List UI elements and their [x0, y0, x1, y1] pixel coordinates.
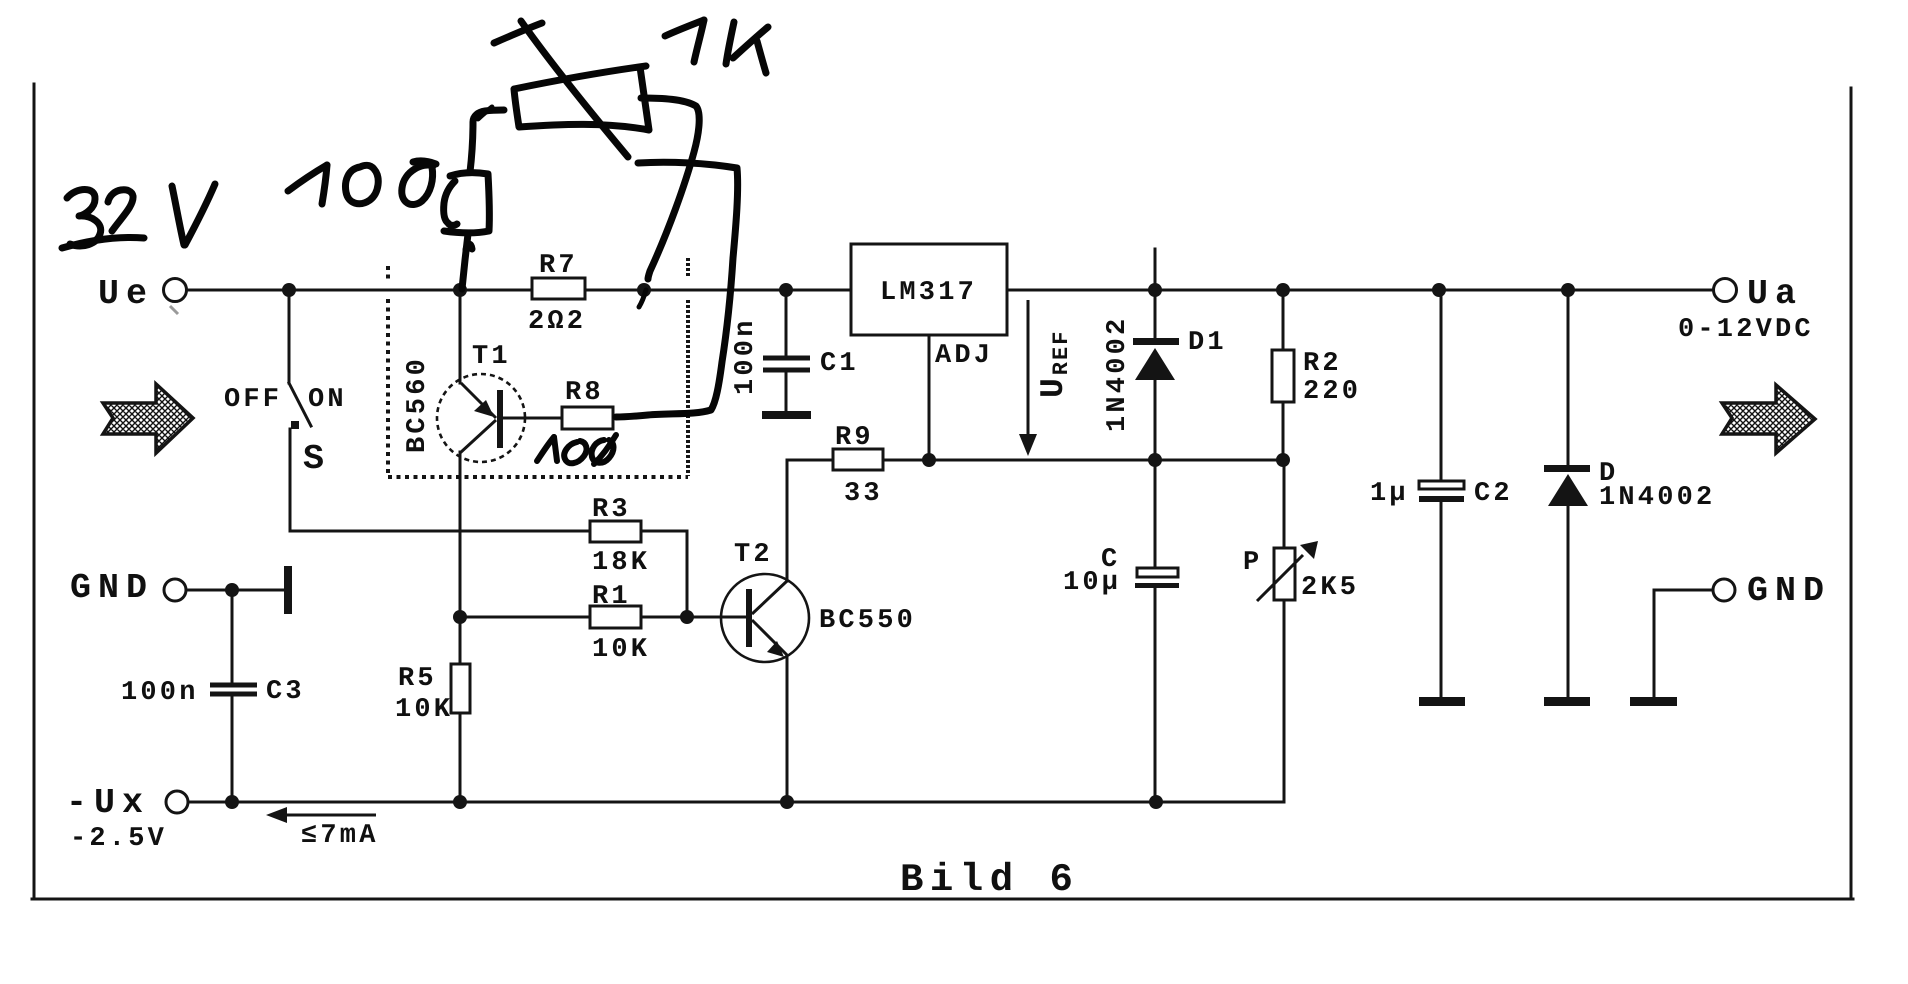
wire C1 branch top — [785, 290, 788, 356]
wire C 10u to bottom rail — [1154, 587, 1157, 802]
dashed selection box bottom edge — [388, 475, 688, 479]
transistor T2 BC550 circle — [721, 574, 809, 662]
svg-text:2K5: 2K5 — [1301, 573, 1359, 603]
svg-text:R2: R2 — [1303, 349, 1342, 379]
potentiometer P 2K5 body — [1274, 548, 1295, 600]
wire R9 right — [883, 459, 929, 462]
transistor T1 emitter diagonal with arrow — [460, 383, 496, 453]
diode D1 1N4002 — [1133, 338, 1179, 380]
capacitor C2 plates — [1419, 481, 1464, 502]
svg-text:GND: GND — [70, 568, 154, 608]
svg-text:Ua: Ua — [1747, 274, 1803, 314]
wire R2 branch top — [1282, 290, 1285, 350]
wire top rail right (LM317 to Ua) — [1007, 289, 1713, 292]
junction dots ADJ rail — [922, 453, 936, 467]
svg-text:R7: R7 — [539, 251, 578, 281]
wire R5 to bottom rail — [459, 713, 462, 802]
terminal Ue — [164, 279, 187, 302]
svg-text:LM317: LM317 — [880, 278, 977, 308]
wire ADJ rail to C 10u — [1154, 460, 1157, 568]
terminal -Ux — [166, 791, 188, 813]
diode D 1N4002 output — [1544, 465, 1590, 506]
svg-text:OFF: OFF — [224, 385, 282, 415]
terminal GND right — [1713, 579, 1735, 601]
svg-text:BC550: BC550 — [819, 606, 916, 636]
wire diode D branch top — [1567, 290, 1570, 466]
svg-text:2Ω2: 2Ω2 — [528, 307, 586, 337]
junction dots middle nodes — [453, 610, 467, 624]
dashed selection box right edge (wavy) — [686, 258, 690, 276]
potentiometer P arrow — [1257, 541, 1318, 601]
svg-text:100n: 100n — [121, 678, 199, 708]
junction dots bottom rail — [225, 795, 239, 809]
junction dots top rail — [225, 283, 1575, 809]
transistor T1 collector diagonal — [460, 420, 496, 453]
svg-text:R3: R3 — [592, 495, 631, 525]
svg-text:-2.5V: -2.5V — [70, 824, 167, 854]
wire C2 bottom — [1440, 501, 1443, 698]
svg-text:C1: C1 — [820, 349, 859, 379]
current arrow 7mA — [266, 807, 376, 823]
wire GND left terminal — [187, 589, 284, 592]
dashed selection box around T1 left edge — [388, 258, 688, 477]
wire ADJ rail — [929, 459, 1283, 462]
svg-text:C3: C3 — [266, 677, 305, 707]
ground bar diode D — [1544, 697, 1590, 706]
hand-drawn resistor 100 (vertical) — [470, 110, 504, 172]
handwritten 7K — [665, 20, 704, 36]
resistor R3 — [590, 521, 641, 542]
svg-text:ADJ: ADJ — [935, 341, 993, 371]
svg-text:Bild 6: Bild 6 — [900, 858, 1079, 902]
resistor R5 — [451, 664, 470, 713]
svg-text:GND: GND — [1747, 571, 1831, 611]
svg-text:S: S — [303, 439, 331, 479]
handwritten 100 (near R8) — [537, 435, 616, 464]
wire T1 collector down — [459, 452, 462, 664]
hand wire from diagonal right then down to R8 — [616, 162, 738, 417]
svg-text:0-12VDC: 0-12VDC — [1678, 315, 1814, 345]
wire T1 emitter — [459, 290, 462, 383]
svg-text:R5: R5 — [398, 664, 437, 694]
capacitor C3 plates — [210, 685, 257, 694]
svg-text:P: P — [1243, 548, 1262, 578]
terminal Ua — [1714, 279, 1737, 302]
wire D1 to ADJ rail — [1154, 380, 1157, 460]
svg-text:R1: R1 — [592, 582, 631, 612]
transistor T1 BC560 circle (dashed) — [437, 374, 525, 462]
transistor T2 base bar — [746, 589, 752, 647]
output arrow (hatched) — [1722, 385, 1815, 453]
wire C3 to bottom rail — [231, 696, 234, 802]
svg-text:R9: R9 — [835, 423, 874, 453]
ground bar GND left (vertical) — [284, 566, 292, 614]
wire C1 branch bottom — [785, 372, 788, 410]
transistor T1 base bar — [497, 390, 503, 448]
resistor R2 — [1272, 350, 1294, 402]
hand-drawn diagonal through 7K resistor — [521, 21, 628, 157]
border frame right — [1850, 88, 1853, 899]
svg-text:-Ux: -Ux — [66, 783, 150, 823]
ground bar C2 — [1419, 697, 1465, 706]
svg-text:D1: D1 — [1188, 328, 1227, 358]
handwritten 32V — [67, 190, 101, 246]
svg-text:10µ: 10µ — [1063, 568, 1121, 598]
wire bottom rail — [188, 801, 1284, 804]
svg-text:1µ: 1µ — [1370, 479, 1409, 509]
svg-text:Ue: Ue — [98, 274, 154, 314]
input arrow (hatched) — [103, 384, 193, 453]
switch S fixed contact — [291, 421, 299, 429]
hand wire from 7K resistor down to rail — [641, 98, 699, 279]
IC U1 LM317 box — [851, 244, 1007, 335]
resistor R8 — [562, 407, 613, 429]
svg-text:1N4002: 1N4002 — [1599, 483, 1715, 513]
resistor R1 — [590, 606, 641, 628]
wire LM317 ADJ pin — [928, 335, 931, 460]
terminal GND left — [164, 579, 186, 601]
wire C3 branch — [231, 590, 234, 683]
resistor R7 — [532, 278, 585, 299]
wire T2 emitter down — [786, 656, 789, 802]
wire T2 collector up to R9 node — [787, 460, 833, 581]
svg-text:33: 33 — [844, 479, 883, 509]
svg-text:1N4002: 1N4002 — [1103, 316, 1133, 432]
border frame left — [33, 84, 36, 899]
ground bar GND right — [1630, 697, 1677, 706]
wire P pot top — [1283, 460, 1286, 548]
wire below switch — [290, 429, 590, 531]
svg-text:≤7mA: ≤7mA — [301, 821, 379, 851]
wire P pot bottom to rail corner — [1283, 600, 1286, 802]
wire T1 base to R8 — [504, 417, 562, 420]
svg-text:10K: 10K — [395, 695, 453, 725]
wire C2 branch top — [1440, 290, 1443, 481]
svg-text:ON: ON — [308, 385, 347, 415]
handwritten 100 (top) — [288, 165, 327, 191]
Uref indicator arrow — [1019, 300, 1037, 456]
wire diode D bottom — [1567, 506, 1570, 698]
wire top rail left (Ue to LM317) — [187, 289, 851, 292]
border frame bottom — [32, 898, 1853, 901]
transistor T2 emitter diagonal with arrow — [752, 620, 787, 655]
artifact tick below Ue — [170, 306, 178, 314]
wire R3 right to base node — [641, 531, 687, 617]
capacitor C 10u plates — [1135, 568, 1179, 588]
svg-text:T1: T1 — [472, 342, 511, 372]
svg-text:10K: 10K — [592, 635, 650, 665]
wire R1 right to T2 base — [641, 616, 746, 619]
wire GND right terminal — [1654, 590, 1712, 698]
capacitor C1 plates — [763, 358, 810, 370]
svg-text:T2: T2 — [734, 540, 773, 570]
wire R2 bottom — [1282, 402, 1285, 460]
capacitor C1 ground bar — [762, 411, 811, 419]
svg-text:BC560: BC560 — [403, 356, 433, 453]
wire D1 branch with stub above rail — [1154, 249, 1157, 339]
hand-drawn tick at diagonal top — [494, 23, 542, 43]
svg-text:R8: R8 — [565, 378, 604, 408]
wire switch branch down — [288, 290, 291, 383]
svg-text:100n: 100n — [731, 317, 761, 395]
svg-text:C2: C2 — [1474, 479, 1513, 509]
wire R1 left — [460, 616, 590, 619]
resistor R9 — [833, 449, 883, 470]
svg-text:18K: 18K — [592, 548, 650, 578]
svg-text:220: 220 — [1303, 377, 1361, 407]
hand-drawn resistor 7K (rotated rect) — [514, 66, 649, 130]
transistor T2 collector diagonal — [752, 581, 787, 657]
wire switch blade — [289, 383, 311, 426]
